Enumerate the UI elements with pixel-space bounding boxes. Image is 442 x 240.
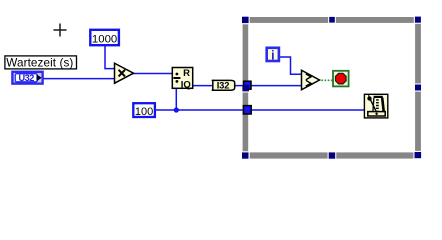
control terminal U32 xyxy=(11,71,44,85)
white gaps around selection handles xyxy=(241,16,423,160)
wire: I32 conversion into loop to comparison lower input xyxy=(234,85,302,87)
selection handle right-middle xyxy=(415,85,421,91)
svg-text:U32: U32 xyxy=(19,73,35,83)
svg-text:Wartezeit (s): Wartezeit (s) xyxy=(6,57,73,70)
loop condition stop terminal xyxy=(333,71,349,87)
wire: multiply output to quotient-remainder input xyxy=(133,73,174,75)
numeric constant 1000 xyxy=(90,30,119,46)
selection handle left-middle xyxy=(242,85,249,92)
selection handle top-left xyxy=(242,17,249,23)
selection handle bottom-left xyxy=(242,152,249,158)
I32 conversion node xyxy=(212,80,235,91)
wire: i terminal to comparison upper input xyxy=(280,57,302,74)
svg-text:R: R xyxy=(183,68,190,79)
quotient and remainder function xyxy=(172,68,192,91)
svg-text:i: i xyxy=(271,49,274,63)
numeric constant 100 xyxy=(133,103,155,118)
selection handle top-right xyxy=(415,17,421,23)
tunnel: 100 wire through loop border xyxy=(243,106,251,114)
while loop top border xyxy=(242,17,421,23)
while loop right border xyxy=(415,17,421,159)
wire: 1000 constant down to multiply upper input xyxy=(105,45,115,69)
greater-or-equal comparison xyxy=(302,70,320,90)
cursor plus sign xyxy=(54,24,67,37)
wire: 100 constant to metronome through tunnel xyxy=(155,109,365,111)
while loop left border xyxy=(243,17,249,159)
selection handle bottom-right xyxy=(415,152,422,158)
svg-text:IQ: IQ xyxy=(181,79,191,90)
junction dot xyxy=(174,107,179,112)
svg-text:100: 100 xyxy=(135,106,153,118)
wire: branch up from junction to quotient-remainder divisor xyxy=(175,87,177,110)
svg-text:I32: I32 xyxy=(217,80,229,91)
iteration terminal i xyxy=(267,48,279,63)
wire: U32 terminal to multiply lower input xyxy=(43,78,115,80)
wire: quotient output to I32 conversion xyxy=(192,85,213,87)
wait until next ms multiple (metronome) xyxy=(364,94,387,118)
multiply function xyxy=(115,63,134,83)
while loop bottom border xyxy=(242,152,421,158)
label Wartezeit (s) xyxy=(5,56,77,70)
tunnel: I32 wire through loop border xyxy=(244,81,251,89)
svg-text:1000: 1000 xyxy=(92,33,117,45)
selection handle top-middle xyxy=(329,17,335,23)
selection handle bottom-middle xyxy=(329,152,336,158)
boolean wire to stop terminal xyxy=(321,79,332,81)
